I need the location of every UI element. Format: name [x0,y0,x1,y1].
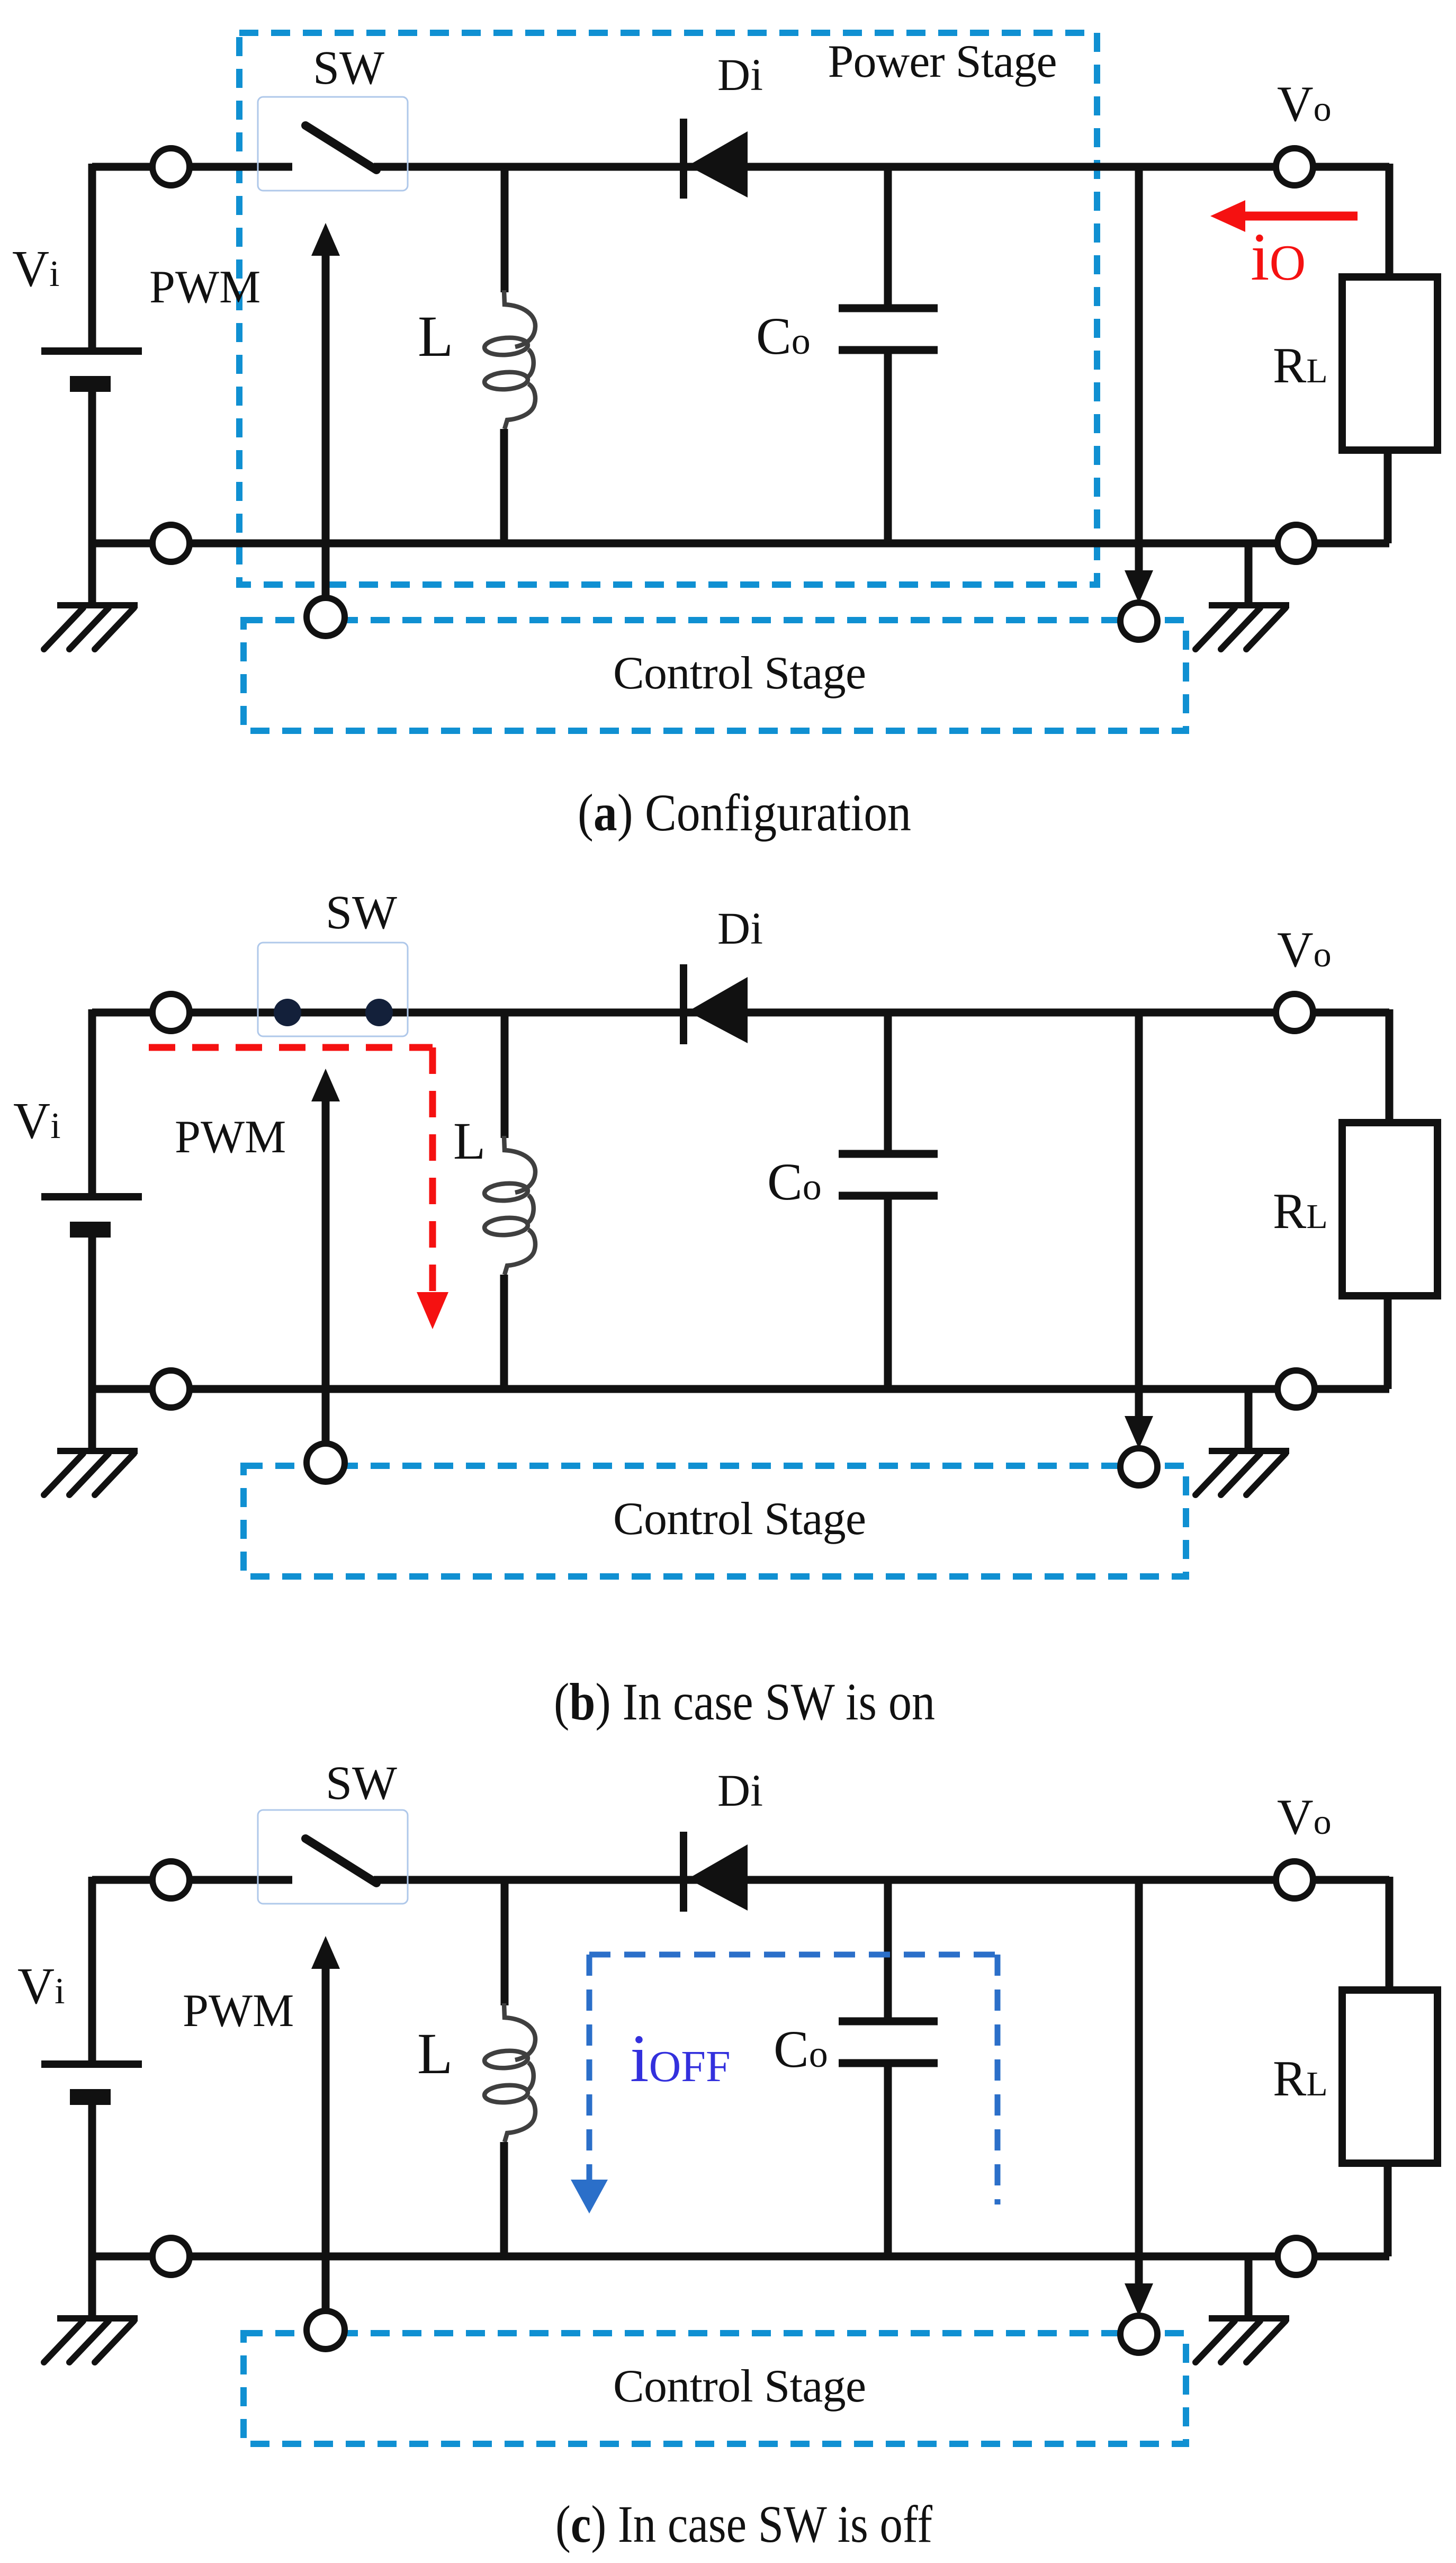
wire output rail upper (a) [1386,164,1394,277]
node output terminal Vo (b) [1276,994,1313,1031]
switch SW open arm (a) [305,126,376,170]
svg-text:SW: SW [326,886,397,939]
node output terminal bottom (b) [1278,1370,1315,1408]
svg-text:iO: iO [1251,219,1306,294]
svg-text:L: L [453,1112,486,1170]
node feedback terminal (b) [1120,1448,1157,1485]
node input terminal bottom (b) [152,1370,190,1408]
wire output rail lower (b) [1384,1296,1392,1389]
ground right (a) [1245,543,1253,605]
svg-text:iOFF: iOFF [630,2021,731,2096]
svg-text:Power Stage: Power Stage [828,36,1057,87]
svg-text:PWM: PWM [175,1112,286,1163]
node PWM control terminal (b) [307,1444,345,1482]
power stage dashed box (a) [239,33,1097,585]
inductor L (a) [501,167,509,292]
svg-text:SW: SW [313,42,384,94]
node input terminal bottom (a) [152,525,190,562]
switch SW open arm (c) [305,1839,376,1883]
switch-off current loop iOFF blue dashed (c) [589,1952,997,1958]
node output terminal bottom (c) [1278,2238,1315,2275]
svg-text:(a) Configuration: (a) Configuration [578,783,911,842]
node feedback terminal (c) [1120,2316,1157,2353]
svg-text:PWM: PWM [149,262,260,313]
diode Di (a) [680,119,687,199]
svg-text:(c) In case SW is off: (c) In case SW is off [555,2495,933,2553]
output current io arrow (a) [1245,212,1358,221]
wire bottom rail (b) [92,1385,1389,1393]
svg-text:Vo: Vo [1277,921,1332,978]
wire input rail upper (b) [88,1009,96,1197]
switch SW box (b) [258,943,408,1036]
node output terminal Vo (a) [1276,148,1313,185]
svg-text:Vo: Vo [1277,76,1332,132]
wire top rail (a) [92,163,292,171]
svg-text:Control Stage: Control Stage [613,648,866,699]
ground left (c) [57,2315,138,2322]
resistor RL (a) [1342,277,1437,450]
svg-text:RL: RL [1273,337,1328,393]
switch SW box (a) [258,97,408,191]
svg-text:PWM: PWM [183,1985,294,2037]
node PWM control terminal (a) [307,598,345,636]
svg-text:(b) In case SW is on: (b) In case SW is on [554,1672,935,1731]
wire output rail lower (a) [1384,450,1392,543]
node input terminal top (c) [152,1861,190,1898]
node PWM control terminal (c) [307,2311,345,2349]
control stage dashed box (c) [244,2333,1186,2444]
control stage dashed box (b) [244,1466,1186,1576]
inductor L (c) [501,1880,509,2005]
ground left (b) [57,1448,138,1454]
svg-text:Co: Co [774,2020,828,2078]
feedback sense wire (c) [1135,1880,1143,2288]
svg-text:RL: RL [1273,2050,1328,2107]
node input terminal top (b) [152,994,190,1031]
resistor RL (c) [1342,1990,1437,2163]
ground left (a) [57,602,138,608]
switch SW box (c) [258,1810,408,1904]
wire input rail lower (a) [88,392,96,605]
svg-text:Control Stage: Control Stage [613,1493,866,1545]
svg-text:Co: Co [756,307,811,365]
node input terminal top (a) [152,148,190,185]
capacitor Co (a) [884,167,892,308]
diode Di (b) [680,964,687,1044]
wire output rail upper (c) [1386,1877,1394,1990]
resistor RL (b) [1342,1123,1437,1296]
wire bottom rail (a) [92,540,1389,548]
wire input rail lower (c) [88,2105,96,2318]
battery Vi (c) [41,2060,142,2068]
wire output rail lower (c) [1384,2163,1392,2256]
PWM control arrow (a) [311,223,340,256]
svg-text:Di: Di [717,49,763,100]
wire top rail (b) [92,1009,1389,1017]
wire bottom rail (c) [92,2253,1389,2261]
inductor L (b) [501,1012,509,1138]
node feedback terminal (a) [1120,603,1157,640]
node output terminal bottom (a) [1278,525,1315,562]
PWM control arrow (c) [311,1936,340,1969]
svg-text:Vi: Vi [17,1958,65,2014]
svg-text:SW: SW [326,1757,397,1809]
node input terminal bottom (c) [152,2238,190,2275]
ground right (b) [1245,1389,1253,1451]
svg-text:Di: Di [717,903,763,954]
switch-on current path red dashed (b) [149,1044,433,1051]
feedback sense wire (b) [1135,1012,1143,1420]
svg-text:L: L [417,2021,453,2086]
wire input rail upper (c) [88,1877,96,2064]
battery Vi (a) [41,347,142,355]
svg-text:Vi: Vi [13,1092,61,1149]
wire top rail (c) [92,1876,292,1884]
svg-text:Vi: Vi [12,240,60,297]
PWM control arrow (b) [311,1069,340,1101]
wire output rail upper (b) [1386,1009,1394,1123]
diode Di (c) [680,1832,687,1912]
capacitor Co (b) [884,1012,892,1154]
svg-text:Control Stage: Control Stage [613,2361,866,2412]
svg-text:Co: Co [767,1152,822,1211]
node output terminal Vo (c) [1276,1861,1313,1898]
wire input rail lower (b) [88,1238,96,1451]
switch SW closed contact dots (b) [274,999,301,1026]
control stage dashed box (a) [244,620,1186,731]
feedback sense wire (a) [1135,167,1143,575]
wire input rail upper (a) [88,164,96,351]
svg-text:Vo: Vo [1277,1789,1332,1845]
svg-text:RL: RL [1273,1183,1328,1239]
capacitor Co (c) [884,1880,892,2021]
ground right (c) [1245,2256,1253,2318]
svg-text:Di: Di [717,1765,763,1816]
svg-text:L: L [418,304,453,369]
battery Vi (b) [41,1193,142,1200]
